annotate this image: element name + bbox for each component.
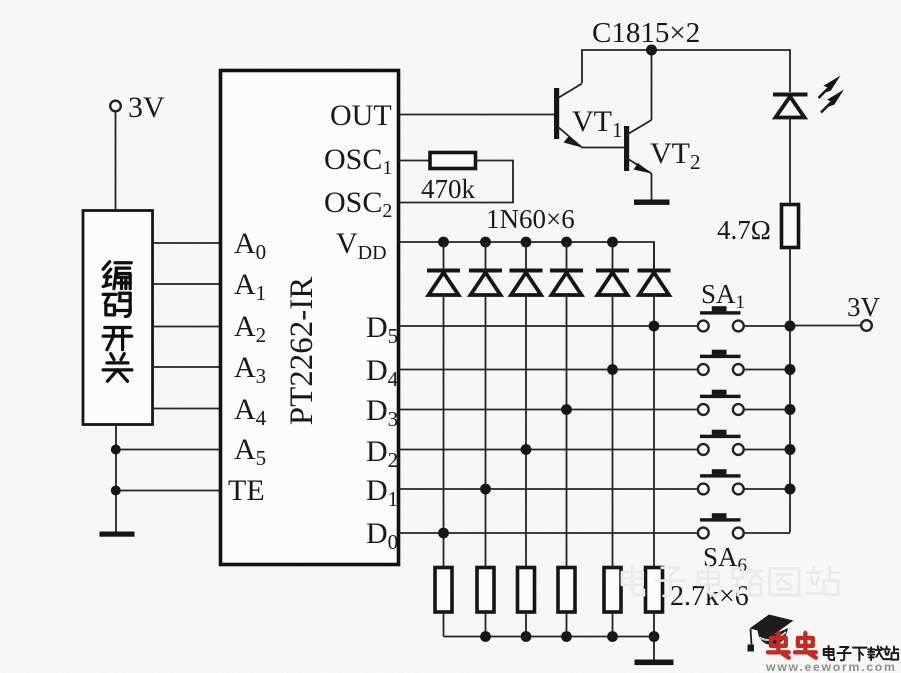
junction right rail SA1: [785, 321, 796, 332]
LED D7 infrared: [773, 95, 808, 118]
svg-text:www.eeworm.com: www.eeworm.com: [765, 660, 897, 673]
wire resistor 3 to bottom rail: [525, 612, 527, 637]
op-amp U1 PT2262-IR IC body: [221, 71, 399, 565]
resistor R3 2.7k: [435, 568, 452, 613]
junction right rail SA5: [785, 484, 796, 495]
label char kai 开: [103, 328, 132, 350]
junction VDD rail col3: [521, 237, 532, 248]
junction right rail SA2: [785, 364, 796, 375]
terminal 3V (top left): [110, 101, 121, 112]
svg-text:3V: 3V: [128, 91, 165, 124]
terminal 3V (right): [861, 320, 872, 331]
ground (below encoder box): [100, 532, 135, 537]
junction column 6 to D5: [649, 321, 660, 332]
svg-text:3V: 3V: [847, 292, 881, 322]
wire D1 row: [399, 488, 698, 490]
emission arrows: [819, 76, 845, 113]
logo text 电子下载站: [824, 646, 834, 660]
svg-text:OUT: OUT: [330, 99, 392, 132]
wire LED to resistor 4.7: [789, 118, 791, 205]
wire OSC1 to resistor 470k: [399, 160, 430, 162]
svg-text:TE: TE: [228, 474, 265, 507]
wire right rail (switch commons): [789, 326, 791, 533]
wire 3V supply to encoder box: [115, 112, 117, 211]
junction bottom rail: [561, 631, 572, 642]
wire A5: [116, 449, 220, 451]
junction column 5 to D4: [607, 364, 618, 375]
junction VDD rail col4: [561, 237, 572, 248]
wire resistor 6 to bottom rail: [653, 612, 655, 637]
diode D1 1N60: [427, 271, 460, 296]
resistor R4 2.7k: [477, 568, 494, 613]
junction column 1 to D0: [438, 528, 449, 539]
wire D2 row: [399, 449, 698, 451]
junction VT2 collector: [646, 45, 657, 56]
ground (VT2 emitter): [634, 200, 670, 205]
junction VDD rail col1: [438, 237, 449, 248]
logo graduation cap: [748, 615, 794, 652]
wire D3 row: [399, 409, 698, 411]
switch SA4: [698, 430, 744, 455]
wire D0 row: [399, 532, 698, 534]
diode D5 1N60: [596, 271, 629, 296]
wire A4: [153, 408, 220, 410]
wire bottom common rail: [444, 637, 655, 661]
junction VDD rail col5: [607, 237, 618, 248]
junction bottom rail: [480, 631, 491, 642]
transistor Q2 VT2: [624, 50, 652, 200]
wire resistor 4 to bottom rail: [566, 612, 568, 637]
switch SA2: [698, 350, 744, 375]
resistor R7 2.7k: [604, 568, 621, 613]
diode D4 1N60: [550, 271, 583, 296]
wire encoder box to ground: [115, 425, 117, 533]
wire OUT to VT1 base: [399, 114, 554, 116]
junction right rail SA4: [785, 444, 796, 455]
encoder switch box (编码开关): [83, 211, 153, 425]
wire VDD distribution rail: [399, 242, 654, 270]
junction VDD rail col2: [480, 237, 491, 248]
wire A1: [153, 283, 220, 285]
wire SA4 to right rail: [744, 449, 790, 451]
wire resistor 5 to bottom rail: [612, 612, 614, 637]
wire SA3 to right rail: [744, 409, 790, 411]
wire diode column 5: [612, 242, 614, 271]
switch SA6: [698, 513, 744, 538]
resistor R5 2.7k: [518, 568, 535, 613]
wire resistor 1 to bottom rail: [443, 612, 445, 637]
junction TE: [111, 486, 121, 496]
wire SA5 to right rail: [744, 488, 790, 490]
logo 虫虫 red: [768, 633, 789, 658]
ground (bottom right): [635, 660, 674, 666]
label char guan 关: [103, 354, 132, 382]
switch SA1: [698, 306, 744, 331]
wire diode column 1: [443, 242, 445, 271]
watermark ghost text 电子电路图站: [622, 565, 644, 595]
diode D3 1N60: [510, 271, 543, 296]
label char ma 码: [103, 293, 130, 316]
junction bottom rail: [649, 631, 660, 642]
junction bottom rail: [607, 631, 618, 642]
diode D2 1N60: [469, 271, 502, 296]
wire SA1 to right rail: [744, 325, 790, 327]
svg-text:470k: 470k: [421, 174, 476, 204]
svg-text:C1815×2: C1815×2: [592, 17, 700, 49]
junction right rail SA3: [785, 404, 796, 415]
wire resistor 2 to bottom rail: [485, 612, 487, 637]
wire SA6 to right rail: [744, 532, 790, 534]
junction bottom rail: [521, 631, 532, 642]
wire resistor to 3V rail: [789, 248, 791, 326]
resistor R8 2.7k: [646, 568, 663, 613]
svg-text:OSC1: OSC1: [324, 143, 392, 179]
wire A3: [153, 366, 220, 368]
resistor R2 4.7ohm: [782, 205, 799, 248]
wire A0: [153, 242, 220, 244]
resistor R1 470k: [430, 153, 476, 169]
wire A2: [153, 326, 220, 328]
svg-text:4.7Ω: 4.7Ω: [717, 215, 771, 245]
junction column 4 to D3: [561, 404, 572, 415]
switch SA5: [698, 469, 744, 494]
wire D5 row: [399, 325, 698, 327]
wire SA2 to right rail: [744, 369, 790, 371]
svg-text:PT2262-IR: PT2262-IR: [284, 277, 320, 426]
wire TE: [116, 490, 220, 492]
resistor R6 2.7k: [558, 568, 575, 613]
transistor Q1 VT1: [554, 84, 624, 148]
svg-text:1N60×6: 1N60×6: [486, 204, 575, 234]
svg-text:OSC2: OSC2: [324, 186, 392, 222]
diode D6 1N60: [638, 271, 671, 296]
switch SA3: [698, 390, 744, 415]
junction A5: [111, 445, 121, 455]
wire diode column 2: [485, 242, 487, 271]
wire to 3V terminal: [790, 325, 861, 327]
junction column 2 to D1: [480, 484, 491, 495]
wire 470k to OSC2: [399, 161, 513, 203]
junction column 3 to D2: [521, 444, 532, 455]
wire diode column 4: [566, 242, 568, 271]
label char bian 编: [103, 262, 131, 289]
wire collectors top rail: [582, 50, 790, 92]
wire diode column 3: [525, 242, 527, 271]
wire D4 row: [399, 369, 698, 371]
wire diode column 6: [653, 242, 655, 271]
